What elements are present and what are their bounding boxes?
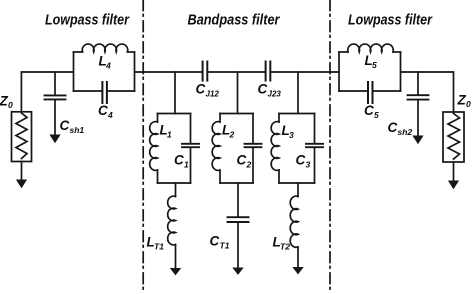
svg-text:2: 2 <box>246 160 252 170</box>
capacitor CJ23 <box>266 62 271 81</box>
svg-text:T1: T1 <box>220 241 230 251</box>
svg-text:C: C <box>237 153 247 168</box>
inductor L4 <box>82 44 128 52</box>
label LT2 <box>273 235 291 252</box>
resistor Z0 (left port) <box>12 112 32 162</box>
label: Lowpass filter (right section) <box>348 12 433 29</box>
svg-text:C: C <box>60 118 70 133</box>
resistor Z0 (right port) <box>443 112 464 162</box>
wire: left bus from Z0 corner to L4C4 resonator <box>21 72 73 112</box>
section boundary dash-dot right <box>329 0 331 294</box>
ground arrow below left Z0 <box>16 162 27 189</box>
svg-text:Lowpass filter: Lowpass filter <box>348 12 433 29</box>
svg-text:J12: J12 <box>206 90 220 99</box>
ground arrow below Csh2 <box>412 100 423 145</box>
wire: tank1 top stem <box>174 72 176 114</box>
svg-text:4: 4 <box>107 110 113 120</box>
ground arrow below Csh1 <box>49 99 60 143</box>
inductor LT1 <box>168 196 176 245</box>
tank 2 frame <box>220 114 253 184</box>
capacitor C3 <box>306 144 323 147</box>
svg-text:C: C <box>296 153 306 168</box>
capacitor Csh2 <box>408 95 429 99</box>
svg-text:5: 5 <box>374 110 379 120</box>
label L5 <box>365 53 378 70</box>
label Z0 left <box>0 94 13 111</box>
label C5 <box>364 103 379 120</box>
svg-text:J23: J23 <box>268 90 282 99</box>
wire: Csh2 stem <box>417 72 419 95</box>
label C1 <box>174 153 189 170</box>
inductor L2 <box>212 122 220 171</box>
ground arrow below LT2 <box>292 247 303 274</box>
capacitor CJ12 <box>203 62 208 81</box>
wire: bus CJ23 to right resonator <box>271 71 339 73</box>
capacitor C1 <box>182 144 199 147</box>
svg-text:3: 3 <box>289 130 294 140</box>
label CJ12 <box>196 82 220 99</box>
wire: tank3 bottom stem <box>297 183 299 197</box>
wire: tank3 top stem <box>297 72 299 114</box>
svg-text:sh1: sh1 <box>70 125 85 135</box>
svg-text:C: C <box>210 234 220 249</box>
label L1 <box>160 123 173 140</box>
inductor LT2 <box>290 196 298 247</box>
ground arrow below right Z0 <box>448 162 459 189</box>
label Z0 right <box>457 93 472 110</box>
svg-text:0: 0 <box>8 100 13 110</box>
wire: Csh1 stem from bus <box>54 72 56 95</box>
label Csh2 <box>388 120 413 137</box>
wire: right bus from resonator to Z0 corner <box>401 72 454 112</box>
svg-text:4: 4 <box>105 61 111 71</box>
svg-text:3: 3 <box>306 160 311 170</box>
svg-text:C: C <box>388 120 398 135</box>
svg-text:1: 1 <box>167 130 172 140</box>
tank 3 frame <box>279 114 315 184</box>
label L3 <box>282 123 295 140</box>
svg-text:C: C <box>196 82 206 97</box>
label C3 <box>296 153 311 170</box>
svg-text:C: C <box>98 103 108 118</box>
capacitor C4 <box>102 82 107 103</box>
inductor L1 <box>150 122 158 171</box>
capacitor Csh1 <box>45 95 66 99</box>
svg-text:Z: Z <box>457 93 467 108</box>
svg-text:C: C <box>174 153 184 168</box>
label CJ23 <box>258 82 282 99</box>
svg-text:0: 0 <box>466 99 471 109</box>
wire: bus CJ12 to CJ23 <box>208 71 265 73</box>
label C2 <box>237 153 252 170</box>
wire: tank2 top stem <box>237 72 239 114</box>
section boundary dash-dot left <box>142 0 144 294</box>
label CT1 <box>210 234 230 251</box>
label Csh1 <box>60 118 85 135</box>
label LT1 <box>147 235 165 252</box>
L5/C5 parallel resonator frame <box>339 52 401 91</box>
label L2 <box>222 123 235 140</box>
wire: tank1 bottom stem <box>175 183 177 197</box>
svg-text:sh2: sh2 <box>398 127 413 137</box>
capacitor CT1 <box>228 217 249 222</box>
svg-text:C: C <box>258 82 268 97</box>
ground arrow below CT1 <box>232 222 243 275</box>
label C4 <box>98 103 113 120</box>
capacitor C5 <box>368 82 373 103</box>
svg-text:5: 5 <box>372 60 377 70</box>
svg-text:T1: T1 <box>154 242 164 252</box>
wire: bus L4C4 to CJ12 <box>135 71 203 73</box>
svg-text:2: 2 <box>229 130 235 140</box>
svg-text:C: C <box>364 103 374 118</box>
label L4 <box>99 54 112 71</box>
label: Bandpass filter (middle section) <box>188 12 281 29</box>
svg-text:1: 1 <box>184 160 189 170</box>
tank 1 frame <box>158 114 191 184</box>
wire: tank2 bottom stem <box>237 183 239 217</box>
capacitor C2 <box>245 144 262 147</box>
inductor L5 <box>348 44 394 52</box>
svg-text:T2: T2 <box>280 242 290 252</box>
label: Lowpass filter (left section) <box>45 12 130 29</box>
inductor L3 <box>271 122 279 171</box>
svg-text:Bandpass filter: Bandpass filter <box>188 12 281 29</box>
ground arrow below LT1 <box>170 245 181 276</box>
L4/C4 parallel resonator frame <box>74 52 135 91</box>
svg-text:Lowpass filter: Lowpass filter <box>45 12 130 29</box>
